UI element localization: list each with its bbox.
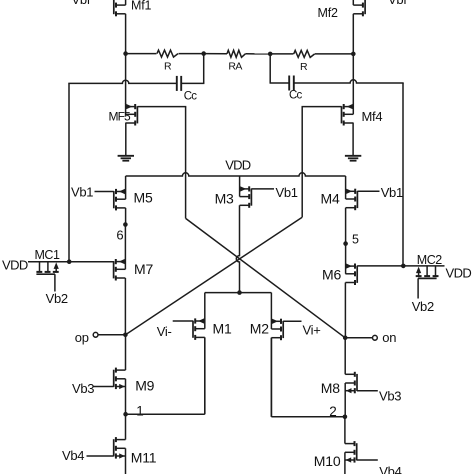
label Cc (right) xyxy=(289,90,303,102)
label Vbf (right, cut at top) xyxy=(388,0,407,7)
svg-text:M2: M2 xyxy=(250,321,269,337)
svg-text:M8: M8 xyxy=(321,380,340,396)
svg-text:M6: M6 xyxy=(322,267,341,283)
label 5 xyxy=(352,232,359,246)
label MF5 xyxy=(109,109,132,123)
label Mf1 xyxy=(131,0,151,12)
svg-text:R: R xyxy=(164,61,172,73)
svg-text:Vb3: Vb3 xyxy=(72,381,94,396)
wire node A-right to R xyxy=(270,53,293,55)
label op xyxy=(75,330,89,345)
svg-text:M11: M11 xyxy=(131,449,157,465)
node 1 xyxy=(123,412,128,417)
label M5 xyxy=(134,190,153,206)
node MC2 drain junction xyxy=(401,264,406,269)
wire Mf2 drain to R node xyxy=(352,14,354,54)
label M10 xyxy=(314,453,341,469)
svg-text:Vb1: Vb1 xyxy=(381,185,403,200)
wire M3 drain to tail (hop over X) xyxy=(236,205,239,292)
transistor MC2 xyxy=(416,266,439,299)
wire on xyxy=(345,337,372,339)
label Vb1 (right) xyxy=(381,185,403,200)
terminal op circle xyxy=(93,332,98,337)
node Mf2-R junction xyxy=(351,52,356,57)
label M4 xyxy=(321,190,340,206)
terminal on circle xyxy=(373,335,378,340)
svg-text:Vb2: Vb2 xyxy=(412,299,434,314)
wire node A-left to RA xyxy=(204,53,227,55)
svg-text:Vbf: Vbf xyxy=(72,0,91,7)
ground (right) xyxy=(345,156,361,161)
svg-text:Vi+: Vi+ xyxy=(303,323,321,338)
label M8 xyxy=(321,380,340,396)
wire M2 gate to Vi+ xyxy=(283,320,301,322)
wire M10 gate to Vb4 xyxy=(357,459,378,461)
label Vi+ xyxy=(303,323,321,338)
label 1 xyxy=(136,404,143,419)
transistor M6 xyxy=(345,263,357,337)
label Vb4 (left) xyxy=(62,448,84,463)
svg-text:op: op xyxy=(75,330,89,345)
node A-right xyxy=(268,52,273,57)
transistor Mf2 xyxy=(353,0,365,16)
svg-text:VDD: VDD xyxy=(225,158,250,173)
label R (right) xyxy=(300,61,308,73)
svg-text:Vb1: Vb1 xyxy=(276,185,298,200)
wire MC1-branch to Cc-left (hop over rail) xyxy=(68,80,177,83)
node 6 xyxy=(123,222,128,227)
label on xyxy=(382,330,396,345)
transistor M4 xyxy=(346,176,358,244)
wire node1 bus xyxy=(126,413,205,415)
wire M8 gate to Vb3 xyxy=(357,390,378,392)
node 2 xyxy=(343,415,348,420)
transistor M1 xyxy=(173,293,205,415)
transistor M2 xyxy=(271,293,283,417)
transistor M5 xyxy=(95,176,126,225)
label M9 xyxy=(135,378,154,394)
wire Cc-left right plate to corner xyxy=(181,82,204,84)
svg-text:Vb3: Vb3 xyxy=(379,389,401,404)
node MC1 drain junction xyxy=(67,259,72,264)
transistor MC1 xyxy=(36,262,58,292)
label Vb3 (left) xyxy=(72,381,94,396)
svg-text:M10: M10 xyxy=(314,453,341,469)
wire M3 gate to Vb1 xyxy=(251,188,274,190)
svg-text:MC2: MC2 xyxy=(417,253,442,267)
label Vb2 (right) xyxy=(412,299,434,314)
label Mf2 xyxy=(318,6,338,20)
label Vi- xyxy=(157,324,172,339)
wire VDD to MC1 to M7 gate xyxy=(28,261,114,263)
svg-text:Mf1: Mf1 xyxy=(131,0,151,12)
transistor M9 xyxy=(93,335,125,414)
svg-text:Cc: Cc xyxy=(184,90,198,102)
svg-text:M3: M3 xyxy=(215,191,234,207)
svg-text:VDD: VDD xyxy=(446,265,472,280)
label M2 xyxy=(250,321,269,337)
label Cc (left) xyxy=(184,90,198,102)
transistor MF5 xyxy=(126,104,138,126)
label VDD (right) xyxy=(446,265,472,280)
svg-text:M9: M9 xyxy=(135,378,154,394)
svg-text:M1: M1 xyxy=(213,321,232,337)
wire node6 to M7 xyxy=(124,225,126,270)
capacitor Cc (left) xyxy=(177,76,181,91)
node on junction xyxy=(343,336,348,341)
label RA xyxy=(228,61,242,73)
label 2 xyxy=(329,404,336,419)
label MC1 xyxy=(35,248,60,262)
wire node A-left down xyxy=(203,54,205,84)
wire node2 to M10 drain xyxy=(344,417,346,444)
svg-text:Vbf: Vbf xyxy=(388,0,407,7)
svg-text:R: R xyxy=(300,61,308,73)
svg-text:1: 1 xyxy=(136,404,143,419)
wire Mf4 gate to feedback vertical xyxy=(302,106,342,108)
wire Mf1 drain to R node xyxy=(125,14,127,54)
svg-text:Vb4: Vb4 xyxy=(379,464,401,474)
wire Mf4 source to ground xyxy=(352,123,354,157)
node Mf1-R junction xyxy=(123,51,128,56)
wire RA to node A-right xyxy=(245,53,270,55)
transistor M11 xyxy=(87,437,126,474)
resistor R (right) xyxy=(294,50,315,57)
transistor M8 xyxy=(345,338,357,417)
label M7 xyxy=(134,261,153,277)
wire cross-couple diagonal (op to right vertex) xyxy=(125,217,302,335)
label M6 xyxy=(322,267,341,283)
resistor R (left) xyxy=(157,50,178,57)
wire cross-couple diagonal (on to left vertex) xyxy=(186,218,346,337)
wire corner to Cc-right left plate xyxy=(270,82,290,84)
wire R row left xyxy=(126,53,157,55)
wire left feedback vertical (MF5 gate to X) xyxy=(185,107,187,219)
label Vb1 (center) xyxy=(276,185,298,200)
wire MF5 source to ground xyxy=(125,123,127,157)
wire MF5 gate to feedback vertical xyxy=(137,106,186,108)
wire Cc-right to MC2-branch (hop over rail) xyxy=(294,80,404,83)
svg-text:Mf2: Mf2 xyxy=(318,6,338,20)
label Vb2 (left) xyxy=(46,291,68,306)
node 5 xyxy=(343,241,348,246)
wire right feedback vertical (Mf4 gate to X) xyxy=(301,107,303,218)
svg-text:Vi-: Vi- xyxy=(157,324,172,339)
label M3 xyxy=(215,191,234,207)
wire MC2 junction up xyxy=(402,83,404,266)
wire M2 drain down to node2 xyxy=(270,338,272,417)
label Vbf (left, cut at top) xyxy=(72,0,91,7)
transistor M7 xyxy=(114,259,126,335)
wire node5 to M6 xyxy=(345,244,347,274)
wire M1 drain down to node1 xyxy=(204,337,206,414)
transistor M3 xyxy=(240,176,252,208)
wire node A-right down xyxy=(269,54,271,83)
wire left rail R-node to MF5 xyxy=(125,54,127,104)
transistor M10 xyxy=(345,441,357,474)
svg-text:Cc: Cc xyxy=(289,90,303,102)
svg-text:Vb4: Vb4 xyxy=(62,448,84,463)
label Mf4 xyxy=(362,109,383,124)
label VDD (center) xyxy=(225,158,250,173)
wire node1 to M11 drain xyxy=(125,414,127,439)
node A-left xyxy=(201,51,206,56)
svg-text:Vb2: Vb2 xyxy=(46,291,68,306)
label Vb4 (right) xyxy=(379,464,401,474)
svg-text:5: 5 xyxy=(352,232,359,246)
label MC2 xyxy=(417,253,442,267)
svg-text:MF5: MF5 xyxy=(109,109,132,123)
svg-text:Mf4: Mf4 xyxy=(362,109,383,124)
svg-text:6: 6 xyxy=(116,228,123,243)
wire MC1 junction up xyxy=(68,83,70,261)
label M1 xyxy=(213,321,232,337)
svg-text:RA: RA xyxy=(228,61,242,73)
transistor Mf1 xyxy=(114,0,126,16)
label Vb3 (right) xyxy=(379,389,401,404)
label R (left) xyxy=(164,61,172,73)
svg-text:Vb1: Vb1 xyxy=(71,185,93,200)
resistor RA xyxy=(227,50,245,57)
svg-text:M4: M4 xyxy=(321,190,340,206)
svg-text:MC1: MC1 xyxy=(35,248,60,262)
ground (left) xyxy=(118,156,134,161)
wire node2 bus xyxy=(271,416,345,418)
wire op xyxy=(98,334,125,336)
label M11 xyxy=(131,449,157,465)
label 6 xyxy=(116,228,123,243)
svg-text:M5: M5 xyxy=(134,190,153,206)
node op junction xyxy=(123,333,128,338)
svg-text:M7: M7 xyxy=(134,261,153,277)
label VDD (left) xyxy=(2,258,28,273)
svg-text:VDD: VDD xyxy=(2,258,28,273)
wire M4 gate to Vb1 xyxy=(357,190,379,192)
wire M6 gate to MC2 to VDD xyxy=(357,265,444,267)
wire VDD rail (hops over feedback verticals) xyxy=(126,173,346,176)
wire R to Mf2 node xyxy=(315,53,353,55)
wire right rail R-node to Mf4 xyxy=(352,54,354,104)
capacitor Cc (right) xyxy=(289,76,294,91)
wire R to node A-left xyxy=(179,53,204,55)
svg-text:on: on xyxy=(382,330,396,345)
node tail junction xyxy=(237,290,242,295)
label Vb1 (left) xyxy=(71,185,93,200)
wire tail bus xyxy=(205,292,272,294)
transistor Mf4 xyxy=(342,104,354,126)
